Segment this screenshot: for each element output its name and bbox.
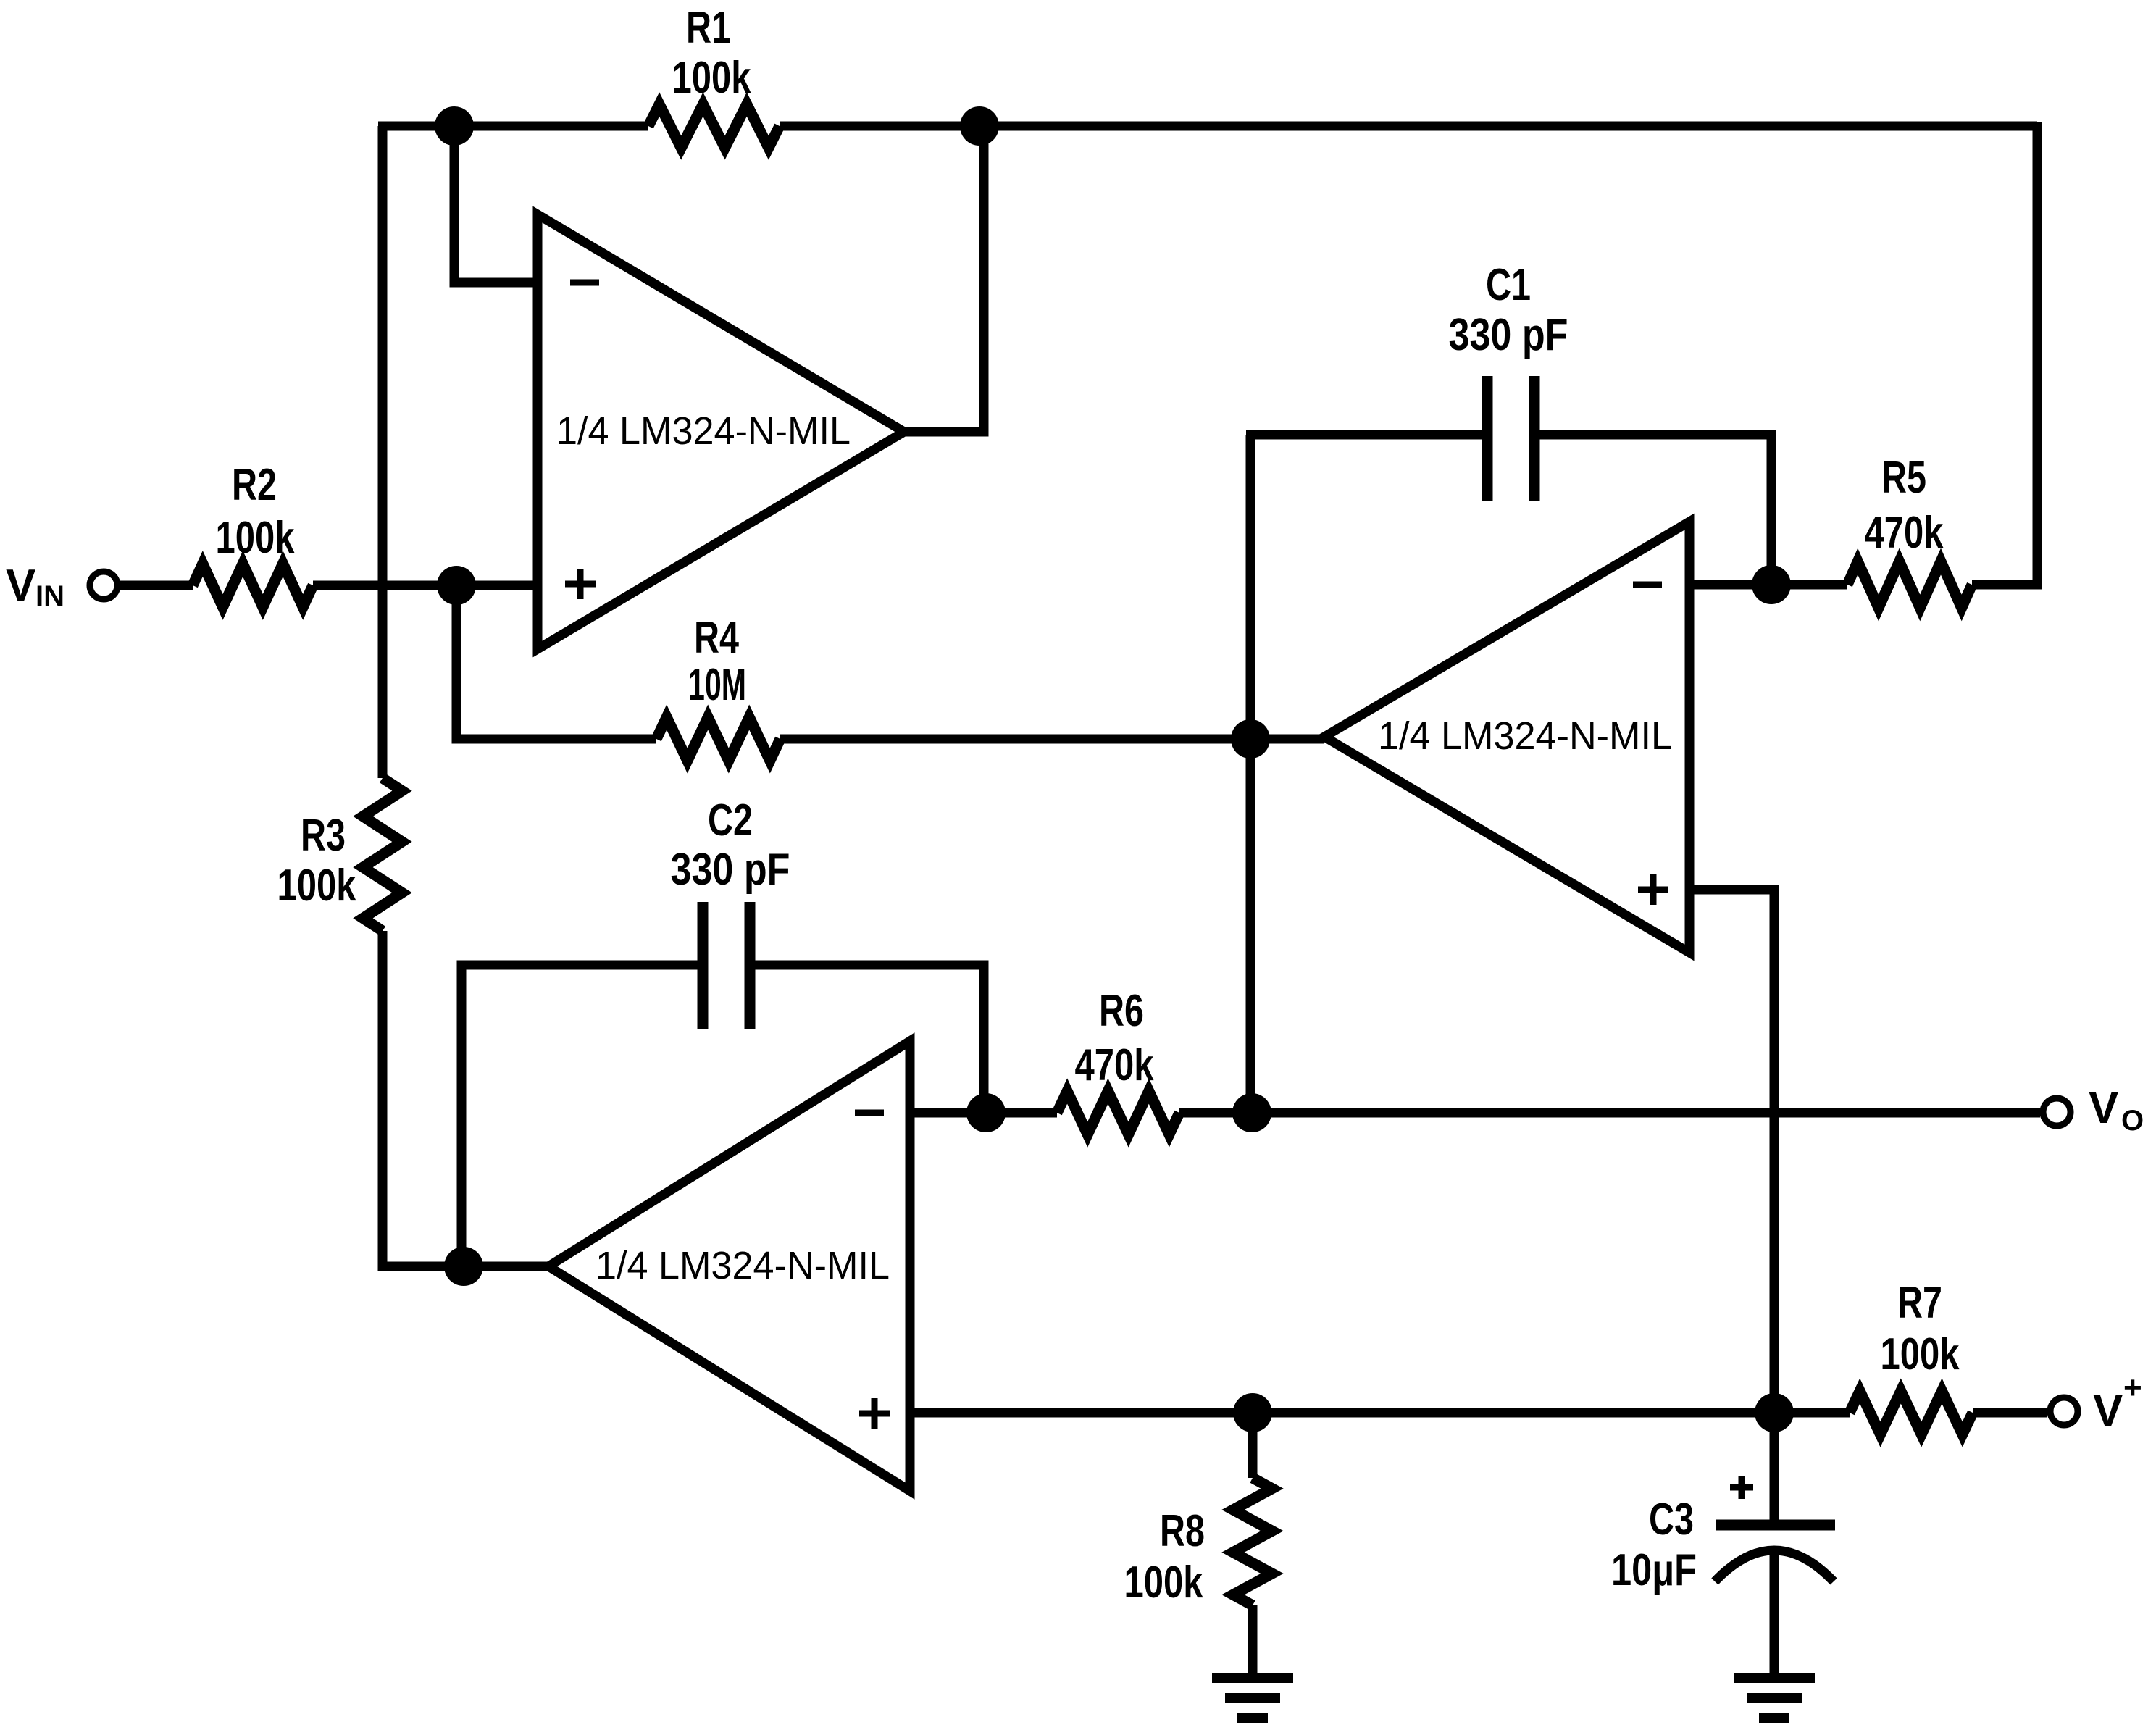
node A bbox=[435, 106, 474, 146]
label R4 bbox=[688, 613, 746, 710]
svg-text:V: V bbox=[2093, 1386, 2123, 1436]
capacitor C1 bbox=[1487, 376, 1534, 501]
wire VIN to R2 bbox=[119, 581, 193, 590]
wire left rail upper bbox=[378, 126, 388, 778]
wire R2 to U1 plus bbox=[313, 581, 538, 590]
svg-text:IN: IN bbox=[35, 580, 64, 612]
svg-text:1/4 LM324-N-MIL: 1/4 LM324-N-MIL bbox=[556, 409, 851, 453]
label C3 bbox=[1611, 1495, 1697, 1595]
wire R8 to ground bbox=[1248, 1605, 1258, 1682]
svg-text:C1: C1 bbox=[1486, 260, 1531, 310]
svg-text:R7: R7 bbox=[1897, 1278, 1942, 1328]
label R3 bbox=[277, 811, 356, 911]
label R1 bbox=[672, 3, 751, 103]
wire left rail lower bbox=[383, 931, 548, 1266]
svg-text:470k: 470k bbox=[1865, 508, 1944, 558]
capacitor C2 bbox=[703, 902, 750, 1029]
svg-text:100k: 100k bbox=[216, 513, 295, 563]
wire A to U1 minus bbox=[454, 126, 538, 283]
wire J down to C3 bbox=[1770, 1413, 1779, 1521]
svg-text:100k: 100k bbox=[1124, 1558, 1203, 1608]
svg-text:R2: R2 bbox=[232, 460, 277, 510]
node H bbox=[1232, 1093, 1271, 1132]
svg-text:C3: C3 bbox=[1649, 1495, 1694, 1545]
svg-text:C2: C2 bbox=[708, 795, 753, 845]
svg-text:R5: R5 bbox=[1881, 453, 1926, 503]
wire R4 to U2 input bbox=[780, 735, 1324, 744]
capacitor C3 bbox=[1715, 1476, 1835, 1581]
wire J to R7 bbox=[1774, 1408, 1850, 1418]
resistor R5 bbox=[1847, 561, 1972, 608]
svg-text:O: O bbox=[2121, 1105, 2144, 1137]
op-amp U1 bbox=[538, 214, 904, 649]
label VO bbox=[2089, 1083, 2144, 1137]
wire R5 to right rail bbox=[1972, 580, 2042, 590]
wire U1 output bbox=[904, 126, 984, 432]
ground R8 bbox=[1212, 1673, 1293, 1683]
wire top right bbox=[780, 122, 2037, 131]
label VIN bbox=[6, 561, 64, 612]
node C bbox=[437, 566, 476, 605]
resistor R2 bbox=[193, 564, 313, 607]
svg-text:R8: R8 bbox=[1160, 1506, 1205, 1556]
wire middle rail bbox=[1246, 435, 1255, 1113]
svg-text:10M: 10M bbox=[688, 660, 746, 710]
label R6 bbox=[1075, 986, 1154, 1090]
label C2 bbox=[671, 795, 790, 895]
wire C2 left bbox=[461, 965, 698, 1266]
wire R7 to Vplus bbox=[1973, 1408, 2047, 1418]
resistor R3 bbox=[363, 778, 402, 931]
node F bbox=[444, 1247, 483, 1286]
wire C1 left bbox=[1246, 430, 1482, 440]
wire C3 to ground bbox=[1770, 1549, 1779, 1682]
wire U2 plus stub bbox=[1689, 890, 1774, 1413]
label R7 bbox=[1881, 1278, 1960, 1379]
resistor R7 bbox=[1850, 1391, 1973, 1434]
op-amp U3 bbox=[548, 1041, 910, 1491]
wire U3 plus stub bbox=[910, 1408, 1774, 1418]
terminal VPLUS bbox=[2050, 1397, 2078, 1425]
svg-text:+: + bbox=[2123, 1370, 2142, 1405]
wire right rail bbox=[2033, 122, 2042, 585]
svg-text:V: V bbox=[6, 561, 35, 611]
svg-text:1/4 LM324-N-MIL: 1/4 LM324-N-MIL bbox=[596, 1244, 890, 1287]
wire I down bbox=[1248, 1413, 1258, 1478]
wire U2 minus stub bbox=[1689, 580, 1771, 590]
terminal VIN bbox=[90, 572, 117, 599]
resistor R4 bbox=[656, 717, 780, 761]
svg-text:R1: R1 bbox=[686, 3, 731, 53]
svg-text:R6: R6 bbox=[1099, 986, 1144, 1036]
terminal VO bbox=[2043, 1098, 2071, 1126]
wire R6 to Vo bbox=[1179, 1108, 2040, 1118]
svg-text:V: V bbox=[2089, 1083, 2118, 1133]
resistor R1 bbox=[648, 104, 780, 148]
node I bbox=[1233, 1393, 1272, 1432]
node G bbox=[966, 1093, 1006, 1132]
svg-text:100k: 100k bbox=[672, 53, 751, 103]
svg-text:470k: 470k bbox=[1075, 1040, 1154, 1090]
wire E to R5 bbox=[1771, 580, 1847, 590]
label R2 bbox=[216, 460, 295, 563]
label R8 bbox=[1124, 1506, 1206, 1608]
label R5 bbox=[1865, 453, 1944, 558]
label C1 bbox=[1449, 260, 1568, 360]
wire C1 right bbox=[1539, 435, 1771, 585]
ground C3 bbox=[1734, 1673, 1815, 1683]
wire C down to R4 bbox=[456, 585, 656, 739]
svg-text:1/4 LM324-N-MIL: 1/4 LM324-N-MIL bbox=[1378, 714, 1672, 758]
svg-text:10μF: 10μF bbox=[1611, 1545, 1697, 1595]
node J bbox=[1755, 1393, 1794, 1432]
wire C2 right bbox=[755, 965, 984, 1113]
label VPLUS bbox=[2093, 1370, 2142, 1436]
wire top left bbox=[378, 122, 648, 131]
svg-text:100k: 100k bbox=[1881, 1329, 1960, 1379]
svg-text:330 pF: 330 pF bbox=[671, 845, 790, 895]
svg-text:R3: R3 bbox=[301, 811, 346, 861]
wire U3 minus stub bbox=[910, 1108, 1057, 1118]
resistor R6 bbox=[1057, 1091, 1179, 1134]
node B bbox=[960, 106, 999, 146]
svg-text:R4: R4 bbox=[694, 613, 739, 663]
resistor R8 bbox=[1233, 1478, 1272, 1605]
node D bbox=[1231, 719, 1270, 759]
svg-text:100k: 100k bbox=[277, 861, 356, 911]
svg-text:330 pF: 330 pF bbox=[1449, 310, 1568, 360]
node E bbox=[1752, 565, 1791, 604]
op-amp U2 bbox=[1324, 522, 1689, 953]
